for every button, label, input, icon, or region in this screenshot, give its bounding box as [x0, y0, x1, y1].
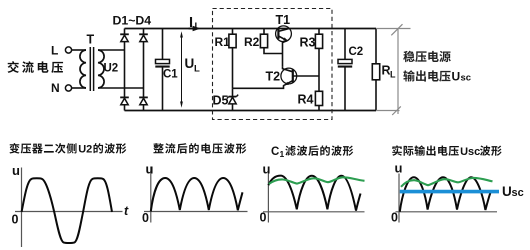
resistor R4 [318, 76, 320, 91]
plot4 output wave (black scallops) [400, 177, 491, 212]
plot1 sine wave [22, 178, 112, 243]
svg-text:D1~D4: D1~D4 [113, 14, 152, 28]
zener diode D5 [232, 88, 234, 96]
svg-text:T1: T1 [276, 13, 291, 27]
transistor T1 [276, 26, 292, 42]
svg-text:u: u [12, 163, 20, 178]
resistor R2 [263, 29, 265, 35]
capacitor C2 [344, 29, 346, 60]
svg-text:U2: U2 [104, 63, 119, 75]
svg-text:R2: R2 [244, 35, 260, 49]
plot4 axes [398, 174, 400, 223]
wire: R2 bottom to T1 emitter node [264, 48, 283, 54]
dashed regulator box [213, 9, 333, 120]
label 交流电压 (AC voltage) [8, 61, 64, 73]
waveform plot 1 title: 变压器二次侧U2的波形 [9, 143, 76, 154]
transistor T2 [281, 68, 297, 84]
resistor R3 [318, 29, 320, 35]
diode D4 (bottom right) [139, 96, 148, 98]
svg-text:C2: C2 [349, 46, 364, 58]
svg-text:L: L [390, 70, 396, 80]
svg-text:T: T [87, 33, 95, 47]
UL voltage arrow [181, 34, 183, 105]
svg-text:u: u [146, 162, 154, 177]
svg-text:L: L [51, 44, 58, 58]
transformer T secondary winding [98, 50, 104, 88]
plot2 axes [150, 167, 152, 223]
svg-text:0: 0 [391, 211, 398, 225]
svg-text:C1: C1 [163, 69, 178, 81]
diode D2 (top right) [139, 33, 148, 35]
svg-text:u: u [263, 162, 271, 177]
svg-text:L: L [195, 21, 201, 32]
plot3 smoothed green curve [269, 177, 365, 184]
svg-text:U: U [502, 184, 512, 199]
diode D1 (top left) [120, 33, 129, 35]
svg-text:C: C [271, 146, 279, 158]
plot3 filtered wave (black scallops) [268, 176, 360, 211]
waveform plot 2 title: 整流后的电压波形 [153, 143, 246, 153]
output port gray leads [376, 28, 411, 30]
load resistor RL [375, 29, 377, 64]
wire: top rail [125, 28, 377, 30]
wire: bottom rail [125, 110, 377, 112]
svg-text:U: U [185, 56, 195, 71]
svg-text:U2: U2 [78, 144, 92, 156]
svg-text:u: u [395, 161, 403, 176]
wire: secondary top to bridge [98, 49, 125, 51]
terminal L circle [65, 47, 71, 53]
wire: L terminal lead [72, 49, 86, 51]
svg-text:L: L [194, 64, 200, 75]
svg-text:t: t [124, 204, 129, 218]
svg-text:I: I [189, 15, 193, 31]
svg-text:sc: sc [512, 187, 524, 199]
bridge branch 1 wire [124, 29, 126, 111]
svg-text:N: N [51, 81, 60, 95]
label 输出电压Usc [403, 70, 450, 81]
resistor R1 [232, 29, 234, 35]
plot3 axes [267, 173, 269, 223]
svg-text:R4: R4 [298, 93, 314, 107]
capacitor C1 [162, 29, 164, 60]
Usc blue level line [400, 190, 499, 194]
plot1 axes [21, 168, 23, 248]
terminal N circle [65, 85, 71, 91]
svg-text:sc: sc [461, 73, 472, 84]
diode D3 (bottom left) [120, 96, 129, 98]
svg-text:D5: D5 [213, 94, 229, 108]
transformer T primary winding [80, 50, 86, 88]
wire: N terminal lead [72, 87, 86, 89]
svg-text:Usc: Usc [460, 146, 480, 158]
wire: secondary bottom to bridge [98, 87, 144, 89]
svg-text:R1: R1 [215, 35, 231, 49]
transformer core [89, 47, 91, 91]
svg-text:T2: T2 [266, 70, 281, 84]
svg-text:0: 0 [142, 211, 149, 225]
plot2 rectified wave [151, 178, 243, 212]
label 稳压电源 [403, 51, 451, 62]
waveform plot 4 title: 实际输出电压Usc波形 [392, 145, 459, 156]
svg-text:0: 0 [12, 213, 19, 227]
svg-text:0: 0 [260, 211, 267, 225]
output slash marks [391, 24, 402, 35]
svg-text:U: U [452, 70, 461, 84]
svg-text:R3: R3 [300, 36, 316, 50]
bridge branch 2 wire [143, 29, 145, 111]
svg-text:1: 1 [280, 149, 285, 159]
IL current arrow [189, 28, 194, 30]
plot4 green envelope curve [401, 178, 493, 187]
